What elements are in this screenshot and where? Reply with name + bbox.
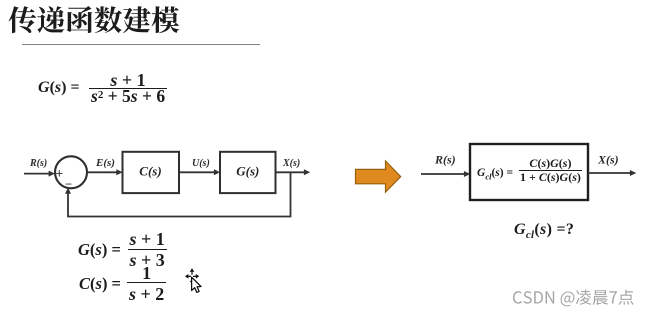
- title underline: [22, 44, 260, 45]
- wire: summer to C(s): [88, 171, 117, 173]
- title 传递函数建模: [7, 3, 183, 37]
- equation G(s) = (s+1)/(s^2+5s+6): [38, 71, 167, 106]
- svg-text:R(s): R(s): [434, 153, 456, 167]
- closed-loop block formula Gcl(s)=C(s)G(s)/(1+C(s)G(s)): [477, 157, 582, 183]
- controller block C(s): [123, 152, 180, 193]
- orange transform arrow: [356, 161, 401, 192]
- wire: C(s) to G(s): [179, 171, 214, 173]
- svg-text:X(s): X(s): [597, 153, 619, 167]
- svg-text:R(s): R(s): [29, 158, 47, 169]
- wire: closed-loop output arrow: [588, 172, 630, 174]
- watermark CSDN @凌晨7点: [512, 288, 638, 310]
- equation Gcl(s) = ?: [514, 221, 574, 241]
- wire: feedback path: [68, 172, 291, 216]
- svg-text:X(s): X(s): [282, 158, 300, 169]
- svg-text:U(s): U(s): [192, 158, 210, 169]
- plant block G(s): [220, 152, 276, 193]
- equation G(s) = (s+1)/(s+3): [78, 230, 167, 270]
- svg-text:C(s): C(s): [139, 164, 161, 179]
- svg-text:+: +: [56, 166, 64, 181]
- svg-text:E(s): E(s): [95, 157, 115, 169]
- summing junction: [55, 156, 87, 188]
- closed-loop block Gcl: [470, 144, 588, 200]
- pointer arrow: [192, 277, 201, 292]
- wire: input R(s) arrow into summer: [24, 173, 49, 175]
- equation C(s) = 1/(s+2): [79, 264, 166, 304]
- mouse cursor with move icon: [181, 262, 209, 298]
- wire: G(s) output arrow: [276, 171, 305, 173]
- wire: input into closed-loop block: [421, 173, 464, 175]
- svg-text:G(s): G(s): [236, 164, 259, 179]
- move cross arrows: [185, 268, 199, 284]
